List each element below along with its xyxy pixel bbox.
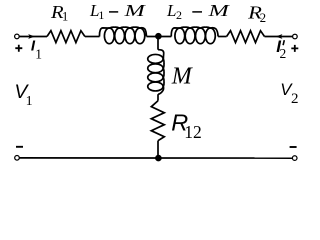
junction node dot bottom (155, 155, 162, 162)
svg-text:L: L (166, 1, 176, 20)
arrow I1 current direction (28, 34, 35, 39)
wire bottom rail (19, 157, 292, 159)
svg-text:1: 1 (62, 10, 68, 24)
wire middle branch upper (157, 37, 159, 50)
resistor R12 (vertical) (151, 101, 164, 141)
svg-text:1: 1 (26, 94, 33, 109)
inductor M coil loops (vertical) (148, 50, 164, 95)
inductor L2-M coil loops (171, 27, 218, 44)
plus sign top-right (291, 45, 298, 52)
resistor R2 (227, 31, 265, 43)
terminal bottom-left (15, 156, 20, 161)
inductor L1-M coil loops (99, 27, 146, 44)
wire R2 to terminal top-right (265, 36, 293, 38)
arrow I2 current direction (276, 34, 283, 39)
svg-text:M: M (123, 1, 146, 20)
wire L1 to junction to L2 (147, 36, 172, 38)
minus sign bottom-right (290, 146, 297, 148)
svg-text:1: 1 (35, 47, 42, 62)
terminal top-right (293, 34, 298, 39)
svg-text:12: 12 (184, 122, 202, 142)
minus sign bottom-left (16, 146, 23, 148)
terminal top-left (15, 34, 20, 39)
resistor R1 (47, 31, 85, 43)
wire R12 to bottom junction (157, 141, 159, 158)
wire M coil to R12 (157, 94, 159, 101)
svg-text:1: 1 (98, 8, 104, 22)
wire L2 to R2 (218, 36, 227, 38)
svg-text:M: M (171, 64, 194, 90)
svg-text:2: 2 (176, 8, 182, 22)
svg-text:2: 2 (291, 91, 299, 107)
wire top-left segment (19, 36, 47, 38)
svg-text:2: 2 (260, 10, 267, 25)
terminal bottom-right (292, 156, 297, 161)
wire R1 to L1 (85, 36, 100, 38)
plus sign top-left (15, 45, 22, 52)
svg-text:M: M (207, 1, 230, 20)
svg-text:2: 2 (280, 46, 287, 61)
junction node dot top (155, 33, 162, 40)
